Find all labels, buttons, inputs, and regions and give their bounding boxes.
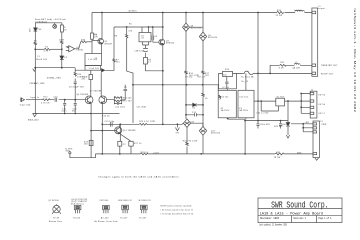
svg-text:0.1 uF: 0.1 uF [222, 87, 229, 89]
svg-text:5V6: 5V6 [38, 29, 42, 31]
svg-text:J2: J2 [311, 90, 313, 92]
resistor R21 on tweeter line [280, 64, 286, 66]
svg-text:Q1 BC560: Q1 BC560 [48, 200, 59, 202]
legend package TO-220 group2 [71, 199, 87, 220]
emitter resistor R27 [129, 141, 133, 146]
wire v x=101.8 [101, 104, 103, 154]
svg-text:ref: ref [141, 38, 144, 40]
ground arrow at v287.5 [286, 135, 289, 138]
wire v x=257.5 [257, 13, 259, 121]
svg-text:From BRT (tab) - DOCS tab: From BRT (tab) - DOCS tab [35, 18, 66, 21]
test point TP1 speaker ground [69, 152, 71, 154]
fuse clip mark inside F2 [219, 95, 221, 99]
svg-text:la15pwr4.sch-1 - Mon May 13 19: la15pwr4.sch-1 - Mon May 13 19:01:23 200… [353, 9, 356, 114]
fuse F1 [242, 71, 255, 74]
svg-text:GND: GND [297, 153, 302, 155]
svg-text:2N5087: 2N5087 [104, 43, 112, 45]
svg-text:100uF 16V: 100uF 16V [36, 59, 48, 61]
diamond transistor Q9 [199, 32, 206, 41]
svg-text:As Shown, Front View: As Shown, Front View [95, 220, 119, 223]
svg-text:100n: 100n [62, 111, 67, 113]
svg-text:+RB: +RB [305, 122, 310, 124]
feedback chain x=74.7 [74, 68, 76, 73]
inductor L1 in rail [295, 10, 304, 11]
svg-text:SIGNAL_GND: SIGNAL_GND [47, 76, 62, 79]
wire input line y=99.2 [26, 99, 85, 101]
wire H mid end corner into F2 [217, 85, 219, 91]
svg-text:Input Gnd: Input Gnd [20, 104, 31, 107]
wire H3 [35, 22, 62, 24]
svg-text:MJE15030,31: MJE15030,31 [118, 200, 131, 202]
ground arrow TP2 on x=176.9 [175, 124, 179, 131]
svg-text:C1: C1 [37, 56, 40, 58]
wire vertical drop x=101.5 [101, 13, 104, 54]
wire relay coil loop [261, 101, 278, 111]
svg-text:J3: J3 [320, 121, 322, 123]
svg-text:R31: R31 [277, 152, 281, 154]
svg-text:C2: C2 [95, 57, 98, 59]
svg-text:OUT A: OUT A [318, 103, 325, 106]
resistor R33 [81, 41, 87, 43]
capacitor box C3 [85, 66, 101, 71]
svg-text:PREAMP_GND: PREAMP_GND [30, 82, 46, 85]
op-amp U2 error amp [69, 46, 75, 52]
wire Q8 to Q9 [190, 27, 204, 32]
svg-text:R6: R6 [115, 36, 118, 38]
lamp DS1 [54, 23, 56, 25]
resistor R14 feedback stack [102, 96, 146, 117]
node rail junction dots [101, 12, 259, 14]
svg-text:PWR: PWR [322, 124, 327, 126]
svg-text:+45VDC: +45VDC [128, 11, 138, 13]
resistor R0 box on x=62.3 [61, 23, 63, 25]
svg-text:C15 10n: C15 10n [239, 96, 248, 98]
capacitor C10 [55, 98, 57, 102]
capacitor C18 [186, 113, 203, 116]
bias trimmer cluster [219, 73, 237, 88]
svg-text:Q6 2N5088: Q6 2N5088 [77, 94, 89, 96]
svg-text:TO-247: TO-247 [139, 218, 147, 220]
wire y=48.2 cross [35, 48, 44, 50]
wire tweeter line y=64.8 [270, 65, 312, 73]
svg-text:R27 10: R27 10 [134, 143, 141, 145]
inductor L2 on tweeter line [294, 63, 300, 66]
svg-text:100n 63V: 100n 63V [260, 124, 270, 126]
capacitor C12 stub [74, 100, 77, 114]
transistor Q7 [99, 96, 107, 104]
svg-text:Q7 2N5088: Q7 2N5088 [90, 91, 102, 93]
IC U1 box [139, 33, 151, 42]
svg-text:K1 RLY: K1 RLY [277, 97, 285, 99]
node dot [162, 70, 164, 72]
wire v x=244.6 [244, 121, 246, 154]
svg-text:C20 100n: C20 100n [115, 106, 125, 108]
fuse box F3 [238, 90, 254, 118]
svg-text:Q12 2N5088: Q12 2N5088 [123, 130, 136, 132]
wire y=120.1 rail [245, 120, 288, 122]
svg-text:Bottom View: Bottom View [49, 220, 63, 223]
svg-text:R5: R5 [129, 24, 132, 26]
legend package TO-247 group5 [139, 200, 151, 220]
wire feed to J2 [301, 94, 310, 114]
transistor Q12 [115, 127, 122, 134]
svg-text:MJ15024,25: MJ15024,25 [139, 200, 151, 202]
svg-text:.22 5W: .22 5W [275, 15, 282, 17]
diode D2 zener dark [60, 56, 64, 60]
svg-text:39p: 39p [72, 111, 76, 113]
svg-text:8.2R: 8.2R [279, 67, 284, 69]
resistor R1 on x=34.8 [34, 42, 36, 45]
wire v x=287.5 with diode D3 [287, 101, 289, 135]
svg-text:MJE340: MJE340 [166, 43, 174, 45]
svg-text:TP2: TP2 [176, 132, 180, 134]
svg-text:R15 2K7: R15 2K7 [123, 101, 132, 103]
svg-text:4A 10R: 4A 10R [293, 66, 301, 69]
wire H4 y=67.5 [34, 67, 75, 69]
svg-text:1K: 1K [64, 29, 67, 31]
capacitor C17 stub [279, 121, 282, 129]
svg-text:TO-247: TO-247 [120, 218, 128, 220]
wire v x=185.5 [186, 13, 187, 154]
svg-text:Revision 1: Revision 1 [294, 216, 307, 220]
resistor R11 box on Q6 collector [90, 70, 92, 74]
svg-text:C21 (NU): C21 (NU) [137, 107, 147, 109]
wire J3 feeds [291, 124, 313, 132]
ground arrow below H4 [33, 69, 36, 72]
svg-text:R20: R20 [225, 69, 229, 71]
svg-text:R14 560: R14 560 [123, 97, 132, 99]
resistor R28 on out line [141, 153, 149, 155]
svg-text:L1 4uH: L1 4uH [295, 10, 303, 12]
resistor R30 in rail [277, 11, 285, 13]
emitter resistor R26 [118, 141, 122, 146]
svg-text:4A 250V: 4A 250V [239, 109, 248, 112]
svg-text:GND: GND [66, 151, 71, 153]
svg-text:C14 10n: C14 10n [220, 96, 229, 98]
mid right Q cluster diode D4 [186, 104, 203, 106]
svg-text:NOTES (unless otherwise specif: NOTES (unless otherwise specified) [161, 204, 192, 207]
output line y=153.4 [96, 153, 314, 155]
capacitor C8 [74, 82, 77, 100]
svg-text:R21: R21 [281, 62, 285, 64]
svg-text:R16 1K: R16 1K [102, 115, 110, 117]
svg-text:OUT B: OUT B [318, 94, 325, 96]
svg-text:D2: D2 [64, 57, 67, 59]
capacitor C5 polarized [143, 42, 149, 49]
transistor Q6 [85, 96, 93, 104]
svg-text:C18: C18 [192, 112, 196, 114]
capacitor C19 [110, 122, 112, 127]
legend transistor TO-39 [48, 200, 62, 223]
diode D1 zener [34, 23, 36, 28]
wire vertical drop x=91.5 [91, 13, 93, 54]
capacitor C13 in bias cluster [225, 77, 228, 89]
title block [258, 198, 342, 223]
svg-text:4.7K: 4.7K [44, 51, 49, 53]
svg-text:10K 1/2W: 10K 1/2W [77, 76, 87, 78]
svg-text:220: 220 [116, 62, 120, 64]
svg-text:15K 1/2W: 15K 1/2W [189, 75, 199, 77]
svg-text:B+ Fuse 4A: B+ Fuse 4A [241, 76, 254, 79]
svg-text:D4: D4 [193, 108, 196, 110]
connector J2 [310, 91, 317, 118]
wire woofer feed y=72.9 [237, 72, 312, 74]
connector J3 [313, 121, 320, 158]
relay K1 [254, 100, 276, 102]
svg-text:1K5: 1K5 [205, 75, 209, 77]
svg-text:R28 10: R28 10 [141, 152, 148, 154]
svg-text:R1: R1 [34, 41, 37, 43]
svg-text:R4: R4 [94, 35, 97, 37]
legend package TO-247 group4 [118, 200, 131, 220]
svg-text:C4: C4 [155, 36, 158, 38]
svg-text:C19 100p: C19 100p [105, 121, 115, 123]
resistor R9 47R [144, 58, 148, 65]
svg-text:Input In: Input In [31, 96, 40, 99]
wire Q10-Q11 [191, 123, 203, 126]
svg-text:47: 47 [148, 62, 151, 64]
ground wire y=113 [35, 113, 120, 115]
svg-text:+OUT: +OUT [153, 152, 160, 154]
svg-text:C7: C7 [124, 87, 127, 89]
svg-text:Changes apply to both the LA10: Changes apply to both the LA10 and LA15 … [98, 176, 179, 179]
svg-text:R24 270 1/2W: R24 270 1/2W [183, 140, 198, 142]
resistor R8 on x=126.2 [126, 35, 128, 39]
svg-text:D1 MUR120: D1 MUR120 [35, 22, 47, 24]
svg-text:C22 1u 50V: C22 1u 50V [256, 113, 269, 115]
node dots on H2 [126, 26, 164, 28]
resistor R25 on y=123.8 [139, 123, 147, 125]
wire mid long horizontal y=84.3 [133, 84, 219, 86]
capacitor C16 stub [257, 121, 260, 129]
resistor R29 1R 5W [275, 153, 284, 155]
svg-text:AC-220: AC-220 [101, 217, 109, 220]
diamond transistor Q11 [199, 126, 206, 135]
resistor hatch on x=62.3 [61, 41, 63, 44]
svg-text:C5B 10uF: C5B 10uF [134, 50, 145, 52]
svg-text:R12: R12 [44, 97, 48, 99]
svg-text:R33: R33 [81, 40, 85, 42]
resistor R16 on x=185.5 [185, 71, 187, 74]
ground symbol [33, 114, 37, 117]
wire v x=90.6 [90, 103, 92, 158]
resistor R12 [42, 99, 50, 101]
svg-text:B+_45: B+_45 [242, 81, 249, 83]
svg-text:LM301: LM301 [77, 49, 84, 51]
svg-text:R30: R30 [277, 10, 281, 12]
svg-text:WOOF OUT: WOOF OUT [321, 73, 334, 75]
svg-text:TWEETER OUT: TWEETER OUT [321, 65, 338, 67]
transistor Q3 on gray vertical [162, 13, 164, 125]
svg-text:500: 500 [223, 74, 227, 76]
svg-text:OUT C: OUT C [318, 113, 325, 115]
svg-text:2. For the LA10, R20= 4K99 1%,: 2. For the LA10, R20= 4K99 1%, R30= 1 1K… [161, 213, 194, 216]
svg-text:R2: R2 [45, 47, 48, 49]
svg-text:BRT: BRT [28, 29, 30, 33]
wire v x=202.5 [202, 13, 204, 154]
svg-text:Last updated, 22 November 2002: Last updated, 22 November 2002 [259, 223, 287, 227]
wire x=126.2 drop with jog [127, 27, 133, 123]
svg-text:TO-39: TO-39 [53, 218, 59, 220]
capacitor box C2 [85, 54, 102, 66]
svg-text:November 1995: November 1995 [260, 216, 279, 220]
wire into Q10 [182, 123, 183, 124]
svg-text:R22 4K7: R22 4K7 [274, 126, 283, 128]
svg-text:470: 470 [129, 31, 133, 33]
svg-text:C8 100pF 1KV: C8 100pF 1KV [69, 86, 85, 88]
svg-text:MJE15030: MJE15030 [191, 28, 202, 30]
svg-text:Page 1 of 1: Page 1 of 1 [318, 216, 331, 220]
svg-text:1R 5W: 1R 5W [274, 157, 281, 159]
diamond transistor Q10 [183, 119, 190, 128]
svg-text:C10: C10 [54, 96, 58, 98]
svg-text:TO-220: TO-220 [73, 218, 81, 220]
input jack P1 [21, 98, 25, 102]
wire H2 mid horizontal y=26.5 [114, 26, 163, 28]
transistor Q5 blob [75, 69, 114, 71]
svg-text:220R: 220R [59, 40, 65, 42]
legend package group3 [95, 200, 119, 223]
svg-text:L2: L2 [295, 62, 298, 64]
svg-text:.22: .22 [122, 144, 125, 146]
wire fuse box stubs [228, 73, 246, 120]
capacitor C4 beside U1 [152, 27, 159, 42]
svg-text:4A 250V: 4A 250V [221, 109, 230, 112]
svg-text:output: output [318, 7, 325, 10]
svg-text:2K2: 2K2 [82, 79, 86, 81]
diamond transistor Q8 [183, 23, 190, 31]
wire x=113.5 drop [113, 27, 115, 71]
svg-text:R25 4.7K 1/2W: R25 4.7K 1/2W [139, 121, 155, 123]
capacitor C7 stub [124, 85, 128, 100]
svg-text:LA10 & LA15 - Power Amp Board: LA10 & LA15 - Power Amp Board [260, 211, 324, 216]
connector J1 output top [312, 8, 318, 76]
resistor R3 box on x=91.5 [91, 33, 94, 39]
wire +45V top rail [92, 12, 312, 14]
resistor R7 on x=113.5 [113, 59, 115, 62]
svg-text:560: 560 [84, 144, 88, 146]
output stage wire y=123.8 [102, 123, 182, 125]
svg-text:2SC5200: 2SC5200 [100, 200, 109, 202]
svg-text:MJ15024: MJ15024 [208, 37, 217, 39]
svg-text:BIAS_ADJ: BIAS_ADJ [28, 119, 39, 122]
resistor R17 on x=202.5 [202, 71, 204, 74]
svg-text:4.7K 5%: 4.7K 5% [41, 102, 50, 104]
svg-text:MJ15024: MJ15024 [211, 133, 220, 135]
svg-text:2.2uF 50V: 2.2uF 50V [89, 68, 100, 70]
capacitor C11 stub [63, 100, 66, 114]
svg-text:1K: 1K [205, 98, 208, 100]
transistor Q2 [98, 38, 104, 44]
svg-text:1. All resistance expressed in: 1. All resistance expressed in ohms, 1/4… [161, 209, 194, 212]
resistor R18 on x=202.5 [202, 93, 204, 96]
fuse box F2 [218, 90, 236, 118]
node dots input line [64, 99, 76, 101]
svg-text:SWR Sound Corp.: SWR Sound Corp. [271, 200, 329, 210]
